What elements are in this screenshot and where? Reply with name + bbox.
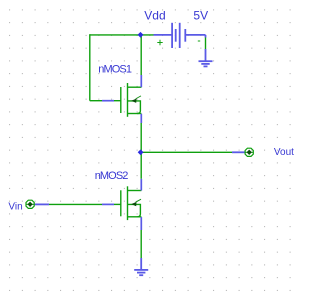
svg-text:nMOS1: nMOS1 bbox=[98, 64, 132, 76]
svg-text:5V: 5V bbox=[193, 9, 208, 23]
svg-text:Vout: Vout bbox=[274, 147, 294, 158]
svg-text:nMOS2: nMOS2 bbox=[95, 170, 129, 182]
svg-text:Vdd: Vdd bbox=[144, 9, 165, 23]
svg-text:Vin: Vin bbox=[8, 202, 22, 213]
